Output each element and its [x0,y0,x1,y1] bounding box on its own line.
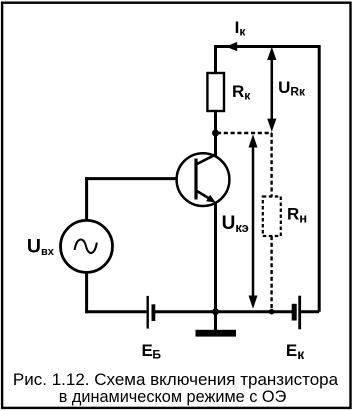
caption line 2 [59,388,287,406]
caption line 1 [13,370,339,389]
transistor VT (NPN, common emitter) [177,153,230,206]
label EB [142,341,162,362]
wire collector branch lower (RK to transistor collector) [214,110,217,157]
arrow IK current direction on top rail [226,42,237,51]
label UKE [222,213,249,235]
dashed wire vertical upper (tap to RH) [270,133,272,197]
wire source branch upper (base wire corner to source top) [85,177,88,222]
node A (collector node joining dashed tap) [212,130,219,137]
dashed wire vertical lower (RH to bottom rail) [270,236,272,311]
node B (emitter node on bottom rail) [212,308,219,315]
arrow UKE (double headed measurement arrow) [249,134,258,308]
source UVX (AC input source) [61,220,113,272]
node C (RH tap on bottom rail) [269,309,275,315]
svg-text:Рис. 1.12. Схема включения тра: Рис. 1.12. Схема включения транзистора [13,370,339,389]
label URK [278,78,306,99]
wire source branch lower (source bottom to bottom rail) [85,271,88,313]
ground [196,312,237,337]
wire base (source to transistor base) [85,177,178,180]
arrow URK (double headed measurement arrow) [267,47,276,132]
resistor RK [207,73,224,111]
battery EB [148,296,154,329]
label EK [286,341,305,362]
resistor RH (load, dashed) [263,197,281,237]
svg-text:в динамическом режиме с ОЭ: в динамическом режиме с ОЭ [59,388,287,406]
battery EK [294,296,300,330]
label RK [232,82,251,103]
label IK [235,18,247,39]
wire emitter branch (transistor to bottom rail) [214,202,217,314]
wire bottom left (source to EB battery) [85,310,146,313]
dashed wire horizontal (collector node to RH tap) [217,132,272,134]
label UVX [27,235,55,258]
wire bottom middle (EB battery to EK battery) [154,310,292,313]
label RH [287,205,307,226]
wire top (collector supply rail) [214,45,320,48]
wire collector branch upper (top rail to RK) [214,45,217,74]
wire right vertical from top rail down to EK battery [301,45,319,312]
